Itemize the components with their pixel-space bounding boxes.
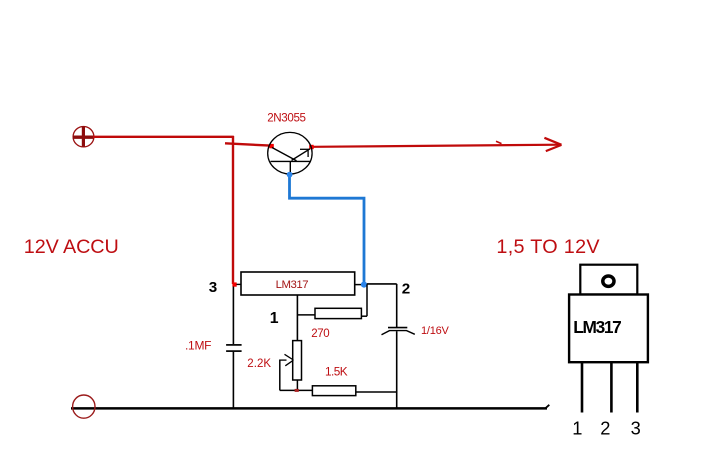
- svg-text:1,5 TO 12V: 1,5 TO 12V: [496, 236, 600, 258]
- svg-text:3: 3: [209, 279, 217, 296]
- svg-text:LM317: LM317: [276, 279, 309, 291]
- svg-text:LM317: LM317: [573, 317, 622, 337]
- svg-text:3: 3: [631, 418, 641, 439]
- svg-text:1: 1: [270, 310, 279, 327]
- svg-text:12V ACCU: 12V ACCU: [24, 236, 119, 258]
- svg-text:2N3055: 2N3055: [267, 111, 306, 124]
- svg-text:2: 2: [600, 418, 610, 439]
- svg-text:2.2K: 2.2K: [247, 358, 271, 370]
- svg-text:1.5K: 1.5K: [325, 365, 348, 379]
- svg-text:.1MF: .1MF: [185, 339, 212, 353]
- svg-text:270: 270: [311, 328, 329, 340]
- svg-text:2: 2: [402, 281, 410, 298]
- svg-text:1/16V: 1/16V: [421, 325, 450, 337]
- svg-text:1: 1: [572, 418, 582, 439]
